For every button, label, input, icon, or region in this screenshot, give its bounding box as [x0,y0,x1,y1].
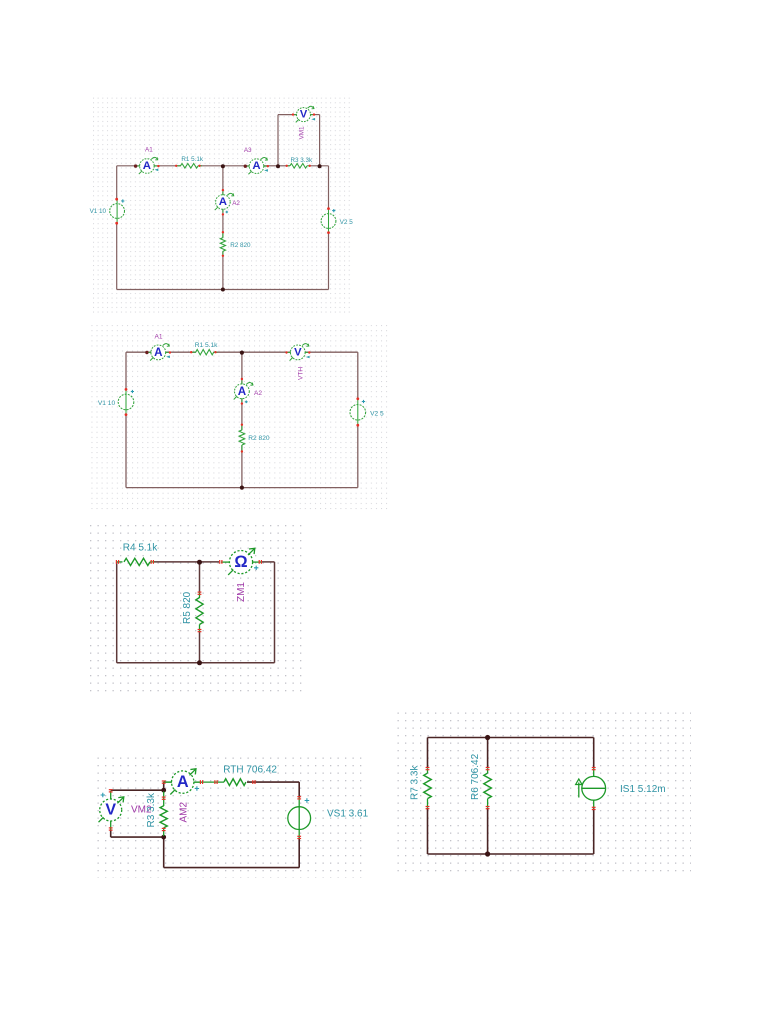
ammeter A3 [244,158,269,175]
svg-text:V: V [294,346,302,358]
wire A1 to R1 [154,165,181,167]
wire bottom [164,867,300,869]
svg-text:R6 706.42: R6 706.42 [470,753,481,800]
wire left side [116,166,118,199]
resistor R1 [190,350,218,355]
svg-text:R5 820: R5 820 [182,591,193,624]
ohmmeter ZM1 [219,548,262,575]
junction node [161,788,166,793]
junction node [240,486,244,490]
wire bottom [428,853,594,855]
wire middle branch [241,352,243,384]
wire middle branch [222,166,224,195]
grid background circuit 5 [395,712,691,876]
svg-text:R7 3.3k: R7 3.3k [409,765,420,800]
wire node to ZM1 [200,561,220,563]
wire voltmeter branch right [311,114,320,116]
svg-text:A2: A2 [232,200,240,207]
svg-text:A: A [219,196,227,208]
wire right side [357,352,359,399]
svg-text:R2 820: R2 820 [230,242,251,249]
wire left bottom [427,808,429,854]
svg-text:AM2: AM2 [179,802,190,823]
svg-text:ZM1: ZM1 [236,582,247,602]
wire right top [593,738,595,769]
ammeter A2 [215,189,234,216]
junction node [221,164,225,168]
wire left side [116,562,118,663]
junction node [485,735,490,740]
svg-text:A: A [252,160,260,172]
wire ZM1 to right corner [261,561,275,563]
wire R1 to node [198,165,223,167]
wire RTH to corner [247,781,299,783]
junction node [276,164,280,168]
svg-text:VS1 3.61: VS1 3.61 [327,808,369,819]
wire node to A3 [223,165,249,167]
svg-text:A1: A1 [154,334,162,341]
ammeter A1 [145,344,171,361]
svg-text:IS1 5.12m: IS1 5.12m [620,784,666,795]
svg-text:R1 5.1k: R1 5.1k [195,342,218,349]
wire node to VTH [242,351,291,353]
wire AM2 lead left [164,781,172,783]
svg-text:R2 820: R2 820 [248,435,270,442]
junction node [240,351,244,355]
wire VTH to corner [305,351,358,353]
wire right side [274,562,276,663]
wire top left [126,351,151,353]
wire R1 to node [214,351,242,353]
svg-text:A: A [154,346,163,359]
wire right side bottom [298,837,300,867]
svg-text:R1 5.1k: R1 5.1k [181,156,204,163]
resistor R2 [239,424,245,453]
voltage source VS1 [288,796,311,839]
junction node [197,560,202,565]
current source IS1 [576,767,606,810]
junction node [221,288,225,292]
wire A1 to R1 [166,351,196,353]
wire right side top [298,782,300,798]
grid background circuit 3 [90,520,306,693]
resistor R6 [484,767,492,809]
wire top left [117,165,140,167]
svg-text:R3 3.3k: R3 3.3k [290,157,313,164]
svg-text:A1: A1 [145,147,153,154]
resistor R5 [196,592,203,633]
wire node up to AM2 pin [163,782,165,790]
svg-text:V1 10: V1 10 [90,208,107,215]
svg-text:V2 5: V2 5 [340,219,353,226]
voltage source V2 [350,397,366,426]
svg-text:VM1: VM1 [298,126,305,139]
grid background circuit 1 [90,94,352,316]
wire node B to R3 [278,165,290,167]
grid background circuit 2 [89,324,389,511]
voltage source V1 [118,388,134,416]
svg-text:A: A [177,773,189,791]
wire left bottom vertical [163,837,165,868]
wire middle branch [199,562,201,593]
svg-text:A2: A2 [254,390,262,397]
resistor R4 [116,558,155,565]
wire voltmeter branch left [277,115,279,166]
junction node [318,164,322,168]
wire top (R4 to node) [154,561,200,563]
svg-text:V: V [300,109,308,121]
voltmeter VTH [285,344,310,361]
junction node [161,835,166,840]
wire middle bottom [487,808,489,854]
resistor R7 [424,767,432,809]
wire A3 to node B [264,165,278,167]
resistor R3 [286,164,311,169]
voltmeter VM2 [99,789,124,831]
wire AM2 to RTH (green leads) [194,781,224,783]
resistor R1 [175,164,202,169]
wire VM2 top to node [111,789,164,791]
voltmeter VM1 [292,106,315,122]
wire right bottom [593,808,595,854]
wire right side down [328,166,330,209]
svg-text:V2 5: V2 5 [370,410,384,417]
svg-text:A: A [143,160,151,172]
svg-text:VTH: VTH [297,367,304,380]
svg-text:RTH 706.42: RTH 706.42 [223,765,277,776]
resistor RTH [214,779,255,786]
resistor R3 [160,792,167,837]
svg-text:Ω: Ω [234,553,247,571]
junction node [197,660,202,665]
voltage source V1 [110,198,125,225]
wire bottom [126,487,358,489]
svg-text:R4 5.1k: R4 5.1k [123,543,158,554]
resistor R2 [220,231,225,257]
voltage source V2 [321,207,336,234]
svg-text:V1 10: V1 10 [98,400,116,407]
svg-text:R3 3.3k: R3 3.3k [146,792,157,827]
grid background circuit 4 [95,756,367,878]
ammeter AM2 [162,769,203,795]
svg-text:A: A [238,385,247,398]
wire left top [427,738,429,769]
junction node [485,851,490,856]
wire VM2 bottom [110,830,112,838]
wire R3 to right corner [311,165,329,167]
wire top [428,737,594,739]
ammeter A2 [234,378,253,405]
wire left side [125,352,127,389]
svg-text:V: V [105,802,116,819]
wire bottom [117,289,329,291]
wire middle top [487,738,489,769]
ammeter A1 [134,157,160,174]
wire bottom [117,662,275,664]
svg-text:A3: A3 [244,147,252,154]
